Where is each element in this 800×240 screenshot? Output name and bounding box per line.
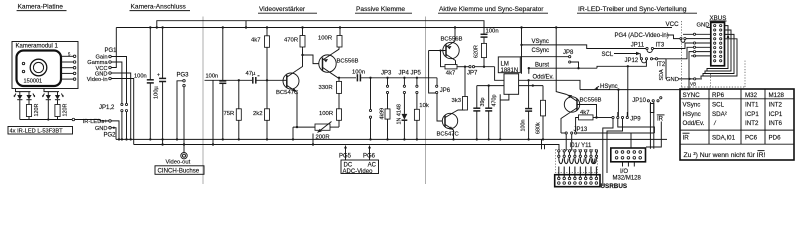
svg-text:4k99: 4k99 bbox=[380, 108, 386, 120]
BC556B3 collector wire bbox=[561, 114, 569, 134]
label PG4 bbox=[615, 33, 680, 39]
jumper JP12 bbox=[625, 58, 667, 68]
connector XBUS bbox=[710, 15, 727, 66]
connector PG3 bbox=[176, 73, 189, 146]
BC547C2 emitter bbox=[452, 130, 454, 141]
wire ISP feeds bbox=[542, 139, 545, 149]
svg-text:IR-LEDs+: IR-LEDs+ bbox=[83, 119, 108, 125]
svg-text:JP6: JP6 bbox=[440, 88, 451, 94]
wire GND down bbox=[111, 73, 132, 141]
svg-text:IR: IR bbox=[683, 135, 690, 142]
heading Aktive Klemme und Sync-Separator bbox=[438, 6, 548, 13]
svg-text:150001: 150001 bbox=[24, 79, 43, 85]
svg-text:100R: 100R bbox=[318, 36, 332, 42]
svg-text:100n: 100n bbox=[486, 28, 499, 34]
BC556B3 base wire bbox=[577, 105, 597, 118]
svg-text:Kamera-Anschluss: Kamera-Anschluss bbox=[131, 4, 187, 11]
BC556B1 collector wire bbox=[333, 74, 357, 81]
svg-text:100R: 100R bbox=[319, 111, 333, 117]
BC547C emitter wire bbox=[296, 92, 299, 127]
svg-text:I/O: I/O bbox=[620, 169, 628, 175]
VCC rail top bbox=[116, 21, 679, 28]
XBUS pins bbox=[714, 25, 722, 62]
JP9 routing wires bbox=[603, 119, 655, 186]
svg-text:JP3: JP3 bbox=[381, 70, 392, 76]
svg-text:CSync: CSync bbox=[532, 48, 550, 54]
wires to ISP connector bbox=[566, 134, 572, 151]
svg-text:JP9: JP9 bbox=[630, 117, 641, 123]
svg-text:+: + bbox=[157, 73, 160, 79]
svg-text:200R: 200R bbox=[316, 134, 330, 140]
svg-text:120R: 120R bbox=[34, 104, 40, 117]
svg-text:RP6: RP6 bbox=[712, 92, 725, 99]
IC LM1881N bbox=[477, 57, 521, 94]
resistor 4k7 (1) bbox=[251, 28, 270, 82]
heading Videoverstaerker bbox=[258, 6, 317, 13]
svg-text:470p: 470p bbox=[491, 95, 497, 107]
wire IR to I/O bbox=[646, 122, 661, 148]
jumper JP9 bbox=[612, 112, 641, 123]
svg-text:2k2: 2k2 bbox=[253, 111, 263, 117]
svg-text:100n: 100n bbox=[134, 74, 147, 80]
active clamp input wire bbox=[429, 51, 443, 122]
heading Kamera-Platine bbox=[17, 4, 67, 11]
connector PG1 bbox=[87, 48, 117, 83]
potentiometer 200R bbox=[292, 122, 339, 146]
jumper JP10 bbox=[632, 97, 662, 104]
video rail bottom bbox=[134, 145, 559, 150]
svg-text:M32: M32 bbox=[745, 92, 758, 99]
jumper JP3 + resistor 4k99 bbox=[380, 77, 390, 141]
svg-text:VSync: VSync bbox=[683, 102, 701, 109]
svg-text:SYNC: SYNC bbox=[683, 92, 701, 99]
svg-text:Burst: Burst bbox=[535, 63, 549, 69]
wire Video-in down bbox=[111, 79, 133, 145]
svg-text:PG6: PG6 bbox=[363, 154, 376, 160]
resistor 2k2 bbox=[253, 80, 270, 140]
svg-text:BC556B: BC556B bbox=[441, 36, 463, 42]
capacitor 100n (2) bbox=[206, 28, 227, 141]
resistor 100R (2) bbox=[319, 109, 342, 127]
LED common wire bbox=[20, 118, 75, 121]
video input wire bbox=[205, 79, 253, 146]
LM1881 bottom pin wires bbox=[500, 94, 509, 139]
svg-text:M128: M128 bbox=[769, 92, 785, 99]
wire to LM1881 input bbox=[495, 67, 504, 81]
wire Gamma to JP2 bbox=[111, 62, 122, 103]
jumper JP6 bbox=[436, 78, 451, 94]
CINCH socket bbox=[181, 153, 187, 159]
JP10 down wires bbox=[631, 102, 654, 149]
svg-text:JP1,2: JP1,2 bbox=[99, 105, 115, 111]
svg-text:4k7: 4k7 bbox=[251, 38, 261, 44]
resistor 120R (1) bbox=[26, 104, 39, 120]
svg-text:ICP1: ICP1 bbox=[769, 111, 783, 118]
svg-text:330R: 330R bbox=[319, 85, 333, 91]
svg-text:GND: GND bbox=[95, 126, 108, 132]
connector USRBUS box bbox=[555, 175, 600, 187]
svg-text:DC: DC bbox=[344, 163, 353, 169]
table signals bbox=[680, 89, 794, 160]
wire IR-LEDs+ down bbox=[111, 121, 120, 141]
resistor 100R (1) bbox=[318, 28, 342, 48]
IR LED D4 bbox=[55, 92, 64, 105]
svg-text:SCL: SCL bbox=[712, 102, 725, 109]
wire CSync link bbox=[597, 60, 646, 116]
svg-text:PD6: PD6 bbox=[769, 135, 782, 142]
svg-text:M32/M128: M32/M128 bbox=[613, 176, 642, 182]
IR LED D3 bbox=[42, 92, 51, 120]
svg-text:BC547C: BC547C bbox=[437, 132, 460, 138]
camera lens bbox=[30, 59, 47, 76]
BC556B2 emitter wire bbox=[454, 28, 456, 42]
svg-text:100n: 100n bbox=[521, 120, 527, 132]
svg-text:INT2: INT2 bbox=[745, 120, 759, 127]
wire JP9 feed bbox=[595, 116, 612, 118]
LM1881 burst pin wire bbox=[528, 67, 530, 74]
jumper JP11 bbox=[631, 43, 683, 50]
capacitor 100u electrolytic bbox=[154, 28, 167, 146]
svg-text:100µ: 100µ bbox=[154, 86, 160, 99]
svg-text:1N 4148: 1N 4148 bbox=[397, 104, 403, 124]
section divider bbox=[202, 17, 204, 185]
svg-text:4k7: 4k7 bbox=[446, 70, 456, 76]
svg-text:USRBUS: USRBUS bbox=[601, 183, 628, 190]
svg-text:VB: VB bbox=[690, 81, 696, 86]
svg-text:JP4: JP4 bbox=[399, 70, 410, 76]
svg-text:INT2: INT2 bbox=[769, 102, 783, 109]
svg-text:PG5: PG5 bbox=[339, 154, 352, 160]
svg-text:JP5: JP5 bbox=[411, 70, 422, 76]
heading Kamera-Anschluss bbox=[130, 4, 191, 11]
transistor BC556B (1) bbox=[303, 54, 359, 75]
svg-text:Videoverstärker: Videoverstärker bbox=[259, 6, 306, 13]
svg-text:Kameramodul 1: Kameramodul 1 bbox=[16, 44, 59, 50]
BC556B2 collector to 4k7 bbox=[455, 61, 457, 65]
svg-text:INT1: INT1 bbox=[745, 102, 759, 109]
camera dots bbox=[22, 62, 24, 72]
camera body bbox=[17, 51, 62, 87]
wire SDA bbox=[659, 59, 666, 81]
transistor BC556B (2) bbox=[429, 36, 463, 60]
section divider bbox=[425, 17, 427, 185]
svg-text:SDA,I01: SDA,I01 bbox=[712, 135, 736, 142]
svg-text:PG4 (ADC-Video-in): PG4 (ADC-Video-in) bbox=[615, 33, 669, 39]
svg-text:LM: LM bbox=[501, 62, 509, 68]
capacitor 100n (5) bbox=[481, 28, 499, 43]
svg-text:4x IR-LED L-53F3BT: 4x IR-LED L-53F3BT bbox=[10, 129, 64, 135]
Kameramodul 1 box bbox=[12, 42, 78, 89]
jumper link arcs bbox=[642, 50, 653, 63]
svg-text:JP12: JP12 bbox=[625, 58, 639, 64]
resistor 120R (2) bbox=[55, 104, 68, 120]
box DC AC ADC-Video bbox=[339, 146, 379, 175]
capacitor 100n (1) bbox=[134, 28, 154, 141]
wire VCC up bbox=[111, 28, 116, 68]
rail junction dots bbox=[149, 26, 557, 28]
jumper JP13 bbox=[561, 127, 654, 134]
svg-text:JP11: JP11 bbox=[631, 43, 645, 49]
svg-text:Odd/Ev.: Odd/Ev. bbox=[533, 75, 555, 81]
resistor 330R bbox=[319, 81, 342, 108]
resistor 75R bbox=[224, 80, 242, 140]
svg-text:ADC-Video: ADC-Video bbox=[343, 169, 374, 175]
svg-text:Aktive Klemme und Sync-Separat: Aktive Klemme und Sync-Separator bbox=[439, 6, 544, 13]
svg-text:PG3: PG3 bbox=[177, 73, 190, 79]
svg-text:Video-out: Video-out bbox=[166, 160, 191, 166]
IR LED D1 bbox=[14, 92, 23, 120]
svg-text:Passive Klemme: Passive Klemme bbox=[356, 6, 405, 13]
BC556B1 emitter wire bbox=[333, 47, 340, 54]
svg-text:100n: 100n bbox=[352, 70, 365, 76]
svg-text:PG2: PG2 bbox=[104, 133, 117, 139]
svg-text:100n: 100n bbox=[206, 73, 219, 79]
jumper JP7 bbox=[467, 66, 495, 77]
resistor 4k7 (3) bbox=[576, 110, 597, 132]
wire Odd/Ev bbox=[519, 75, 580, 90]
module pins bbox=[61, 52, 76, 81]
LM1881 VCC pin wire bbox=[520, 28, 522, 74]
BC556B3 emitter wire bbox=[556, 28, 567, 95]
svg-text:Kamera-Platine: Kamera-Platine bbox=[18, 4, 64, 11]
svg-text:Zu ²) Nur wenn nicht für IR!: Zu ²) Nur wenn nicht für IR! bbox=[684, 152, 766, 159]
jumper JP8 bbox=[563, 50, 579, 68]
svg-text:39p: 39p bbox=[480, 98, 486, 107]
BC547C collector wire bbox=[297, 49, 304, 71]
svg-text:IT3: IT3 bbox=[656, 43, 665, 49]
svg-text:I01/ Y11: I01/ Y11 bbox=[570, 143, 592, 149]
connector I/O box bbox=[611, 148, 646, 162]
label CINCH-Buchse bbox=[155, 166, 204, 175]
svg-text:1881N: 1881N bbox=[501, 68, 519, 74]
jumper JP1,2 bbox=[99, 103, 128, 140]
svg-text:75R: 75R bbox=[224, 111, 235, 117]
capacitor 47u bbox=[246, 71, 284, 84]
heading IR-LED-Treiber und Sync-Verteilung bbox=[577, 6, 697, 13]
svg-text:CINCH-Buchse: CINCH-Buchse bbox=[158, 168, 200, 175]
svg-text:PC6: PC6 bbox=[745, 135, 758, 142]
svg-text:HSync: HSync bbox=[600, 84, 618, 90]
svg-text:JP7: JP7 bbox=[467, 70, 478, 76]
svg-text:IR-LED-Treiber und Sync-Vertei: IR-LED-Treiber und Sync-Verteilung bbox=[578, 6, 687, 13]
svg-text:IR: IR bbox=[657, 116, 664, 122]
resistor 620R bbox=[473, 43, 486, 68]
label GND lower bbox=[666, 77, 702, 83]
svg-text:VSync: VSync bbox=[532, 39, 549, 45]
transistor BC547C (2) bbox=[437, 113, 460, 138]
svg-text:ICP1: ICP1 bbox=[745, 111, 759, 118]
I/O stub wires bbox=[623, 162, 635, 167]
jumper JP4 + diode 1N4148 bbox=[397, 77, 408, 141]
svg-text:JP10: JP10 bbox=[632, 98, 646, 104]
XBUS wrap wires bbox=[701, 26, 737, 78]
BC547C2 collector + resistor 3k3 bbox=[452, 66, 468, 113]
label 4x IR-LED bbox=[8, 127, 73, 135]
svg-text:680k: 680k bbox=[535, 122, 541, 134]
svg-text:AC: AC bbox=[368, 163, 377, 169]
svg-text:Odd/Ev.: Odd/Ev. bbox=[683, 120, 705, 127]
transistor BC547C (1) bbox=[276, 71, 299, 97]
svg-text:BC556B: BC556B bbox=[580, 97, 602, 103]
capacitor 100n (3) coupling bbox=[352, 70, 437, 82]
svg-text:47µ: 47µ bbox=[246, 71, 257, 77]
dotted boundary bbox=[681, 21, 745, 89]
resistor 4k7 (2) bbox=[441, 51, 469, 77]
svg-text:120R: 120R bbox=[62, 104, 68, 117]
resistor 470R bbox=[284, 28, 305, 49]
svg-text:10k: 10k bbox=[419, 103, 429, 109]
wire CSync bbox=[520, 48, 568, 57]
wire to IR-LEDs+ pin bbox=[75, 120, 109, 121]
ISP wire loops bbox=[559, 152, 597, 177]
LM1881 out2 wire bbox=[519, 84, 543, 86]
IR LED group 1 wires bbox=[16, 89, 31, 92]
jumper column (1) bbox=[369, 77, 371, 141]
capacitor 39p bbox=[473, 86, 486, 141]
transistor BC556B (3) bbox=[564, 95, 601, 114]
GND rail bottom bbox=[116, 138, 667, 140]
svg-text:Video-in: Video-in bbox=[87, 77, 108, 83]
svg-text:PG1: PG1 bbox=[105, 48, 118, 54]
connector ISP dotted box bbox=[556, 149, 598, 172]
svg-text:IT2: IT2 bbox=[657, 62, 666, 68]
IR LED group 2 wires bbox=[44, 89, 59, 92]
svg-text:SCL: SCL bbox=[602, 52, 614, 58]
IR LED D2 bbox=[26, 92, 35, 105]
capacitor 100n (6) bbox=[521, 79, 533, 140]
cinch video-out drop bbox=[183, 145, 185, 153]
resistor 680k bbox=[535, 86, 545, 141]
wire HSync bbox=[580, 84, 683, 116]
svg-text:SDA²: SDA² bbox=[712, 111, 727, 118]
wire VSync bbox=[522, 39, 646, 49]
svg-text:SDA: SDA bbox=[659, 69, 665, 80]
heading Passive Klemme bbox=[355, 6, 412, 13]
wire PG2 GND to rail bbox=[111, 127, 116, 140]
label IR bar bbox=[657, 115, 665, 122]
ISP pins row bbox=[558, 150, 598, 158]
svg-text:GND: GND bbox=[666, 77, 679, 83]
svg-text:BC556B: BC556B bbox=[337, 58, 359, 64]
label GND xbus top bbox=[697, 22, 711, 28]
capacitor 470p bbox=[485, 84, 497, 140]
connector PG2 pins bbox=[83, 119, 116, 139]
xbus feed wires bbox=[666, 33, 711, 89]
svg-text:HSync: HSync bbox=[683, 111, 701, 118]
wire Burst bbox=[529, 63, 597, 70]
wire SCL bbox=[602, 52, 641, 58]
svg-text:470R: 470R bbox=[284, 38, 298, 44]
VCC upper branch wire bbox=[157, 21, 484, 35]
jumper JP5 + resistor 10k bbox=[414, 77, 428, 141]
wire Gain to JP1 bbox=[111, 57, 126, 104]
svg-text:JP8: JP8 bbox=[563, 50, 574, 56]
svg-text:VCC: VCC bbox=[666, 21, 680, 28]
svg-text:620R: 620R bbox=[473, 45, 479, 58]
svg-text:INT6: INT6 bbox=[769, 120, 783, 127]
svg-text:BC547C: BC547C bbox=[276, 90, 299, 96]
svg-text:3k3: 3k3 bbox=[452, 98, 462, 104]
